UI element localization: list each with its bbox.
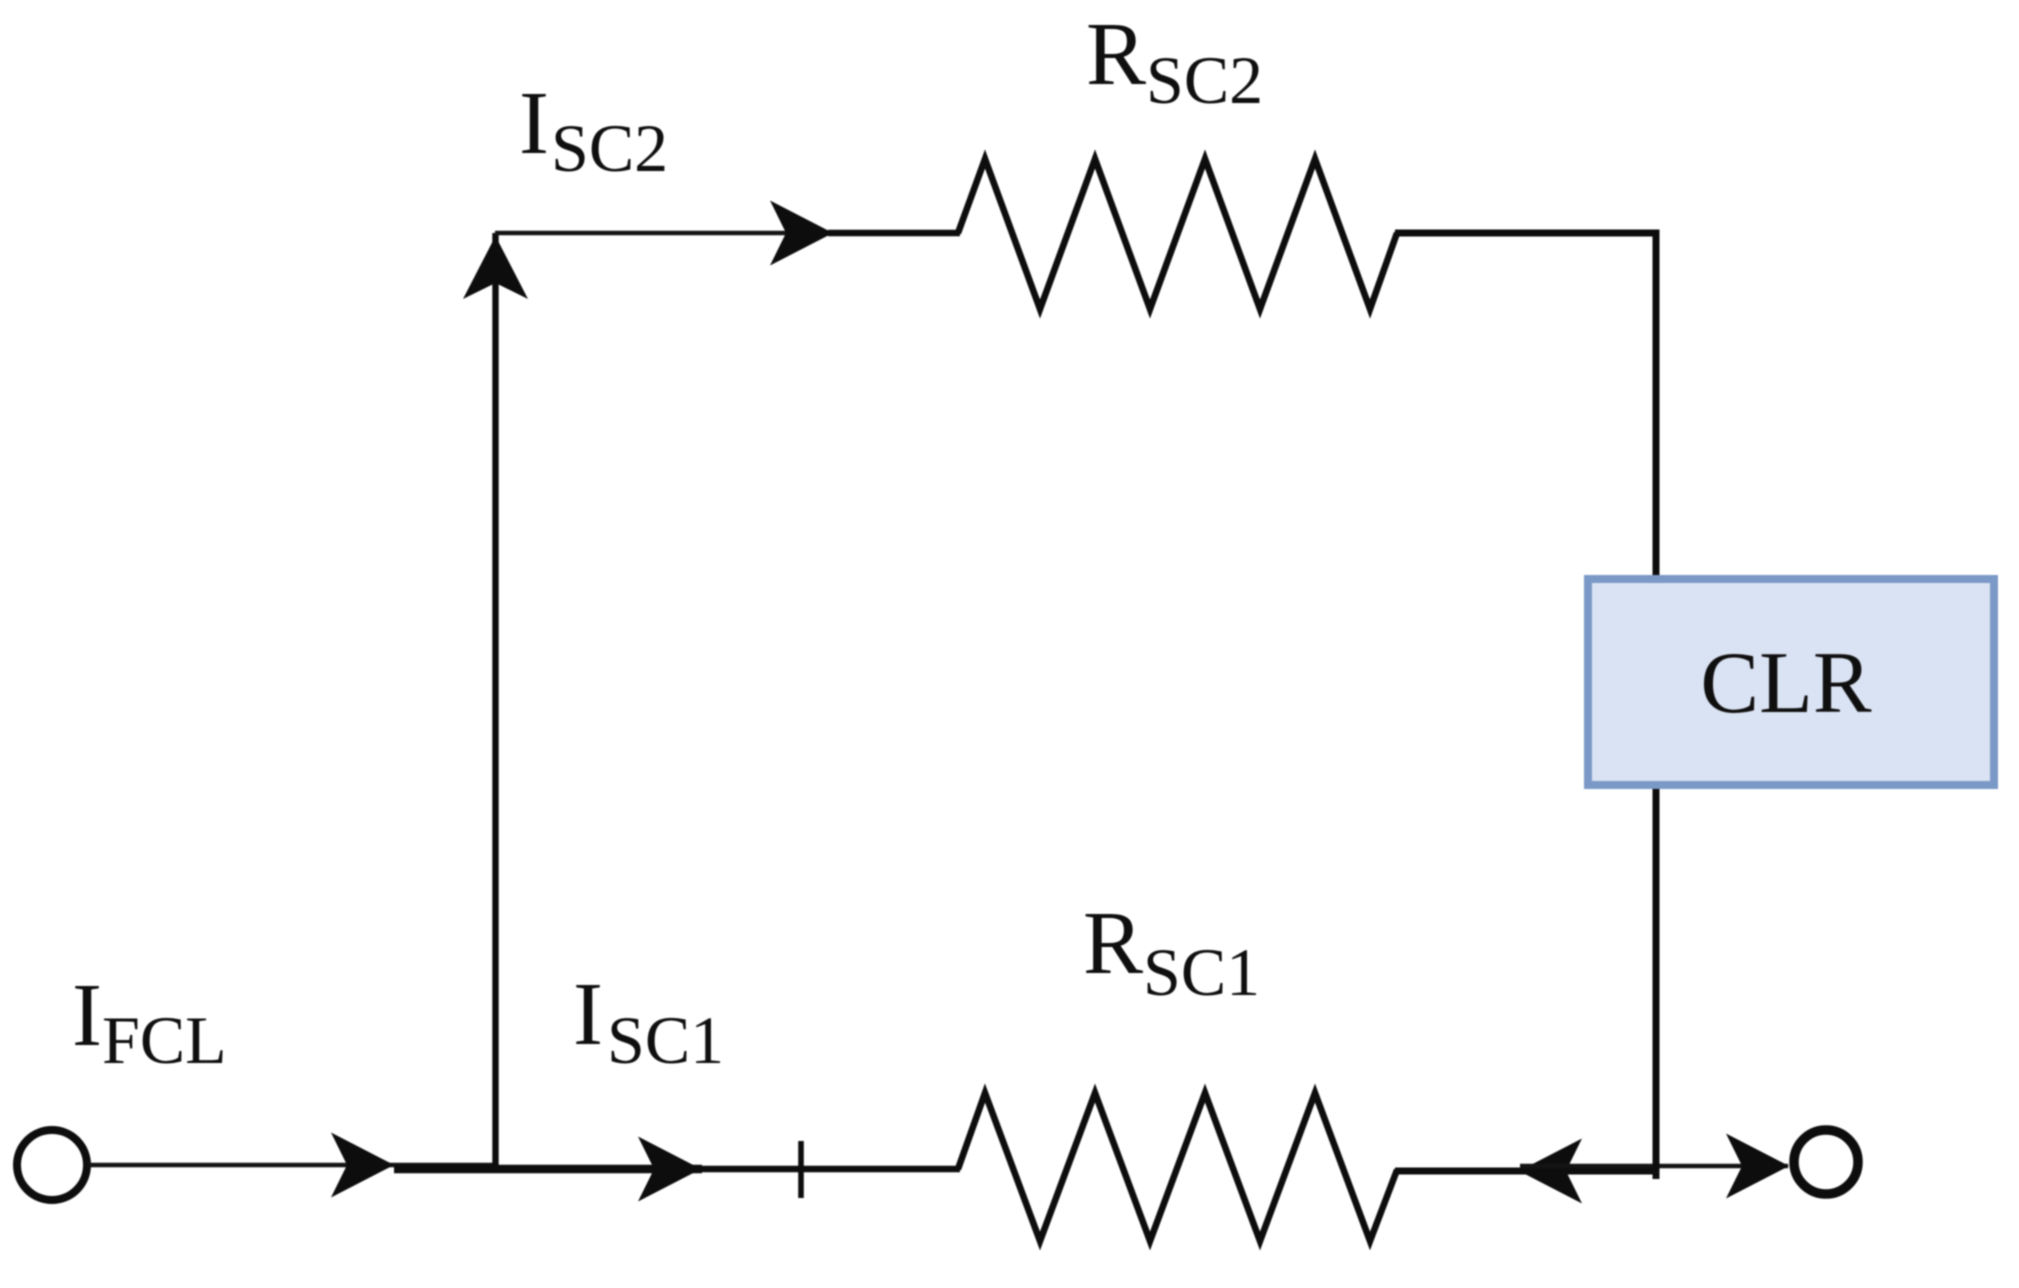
svg-text:FCL: FCL [102, 1002, 227, 1078]
svg-text:I: I [519, 74, 549, 173]
svg-text:SC2: SC2 [1146, 42, 1263, 118]
svg-text:SC2: SC2 [551, 110, 668, 186]
arrow I_FCL [331, 1133, 394, 1198]
terminal circle right [1794, 1130, 1858, 1194]
wire I_FCL (thin, left terminal to junction) [89, 1163, 497, 1168]
svg-text:R: R [1083, 894, 1143, 993]
CLR box [1588, 579, 1994, 785]
svg-text:CLR: CLR [1700, 635, 1871, 732]
node junction vertical wire (left branch) [492, 233, 498, 1169]
wire R_SC1 to right vertical (bold) [1395, 1168, 1659, 1175]
wire R_SC2 to right vertical [1395, 230, 1660, 237]
svg-text:I: I [72, 966, 102, 1065]
arrow I_SC2 horizontal [770, 201, 833, 266]
arrow into R_SC1 (pointing left) [1519, 1139, 1582, 1204]
wire junction to R_SC1 [698, 1166, 960, 1173]
wire I_SC2 (thin, top) [495, 231, 800, 236]
wire arrow to R_SC2 [828, 230, 960, 236]
wire I_SC1 (bold segment) [394, 1165, 702, 1173]
svg-text:SC1: SC1 [1143, 934, 1260, 1010]
arrow I_SC2 (up) [463, 236, 528, 299]
right vertical wire upper [1653, 230, 1660, 579]
right vertical wire lower [1653, 786, 1660, 1179]
svg-text:SC1: SC1 [607, 1002, 724, 1078]
svg-text:I: I [573, 965, 603, 1064]
svg-text:R: R [1086, 5, 1146, 104]
resistor R_SC1 [958, 1093, 1397, 1241]
tick mark [798, 1141, 804, 1198]
wire junction to right terminal (thin) [1520, 1164, 1788, 1169]
arrow I_SC1 [638, 1137, 701, 1202]
arrow to right terminal [1726, 1134, 1789, 1199]
resistor R_SC2 [958, 159, 1397, 309]
terminal circle left [17, 1130, 87, 1200]
